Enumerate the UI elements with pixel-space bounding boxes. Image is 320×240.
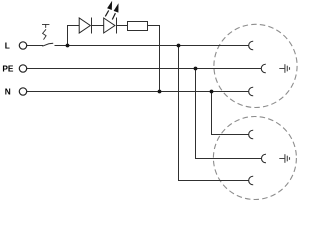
wire N branch to X2 top contact <box>212 92 249 135</box>
wire N bus <box>27 91 249 93</box>
wire L branch to X2 bottom contact <box>179 46 249 181</box>
contact X2 PE (middle) <box>261 154 266 163</box>
wire resistor to N bus <box>148 26 160 92</box>
terminal L <box>19 42 26 49</box>
wire PE branch to X2 middle contact <box>196 69 262 159</box>
contact X1 L <box>249 41 254 50</box>
resistor R1 body <box>128 22 148 31</box>
wire L switch to socket X1 top contact <box>54 45 248 47</box>
node L branch to X2 <box>177 44 181 48</box>
node N branch to X2 <box>210 90 214 94</box>
contact X1 PE <box>261 64 266 73</box>
LED emission arrow 1 <box>105 1 112 17</box>
wire PE bus <box>27 68 262 70</box>
contact X2 N (top) <box>249 130 254 139</box>
svg-text:N: N <box>5 87 11 97</box>
switch S1 blade <box>42 43 53 46</box>
contact X2 L (bottom) <box>249 176 254 185</box>
node PE branch to X2 <box>194 67 198 71</box>
wire diode to LED <box>92 25 104 27</box>
socket outlet X2 dashed circle <box>213 117 296 200</box>
wire L terminal to switch <box>27 45 43 47</box>
node L to LED branch <box>66 44 70 48</box>
svg-text:PE: PE <box>2 64 14 74</box>
LED V2 <box>104 18 115 33</box>
earth symbol X2 <box>279 154 289 163</box>
wire LED to resistor <box>117 25 128 27</box>
svg-text:L: L <box>5 41 10 51</box>
LED emission arrow 2 <box>112 3 118 19</box>
node resistor branch on N <box>158 90 162 94</box>
diode V1 <box>79 18 90 33</box>
contact X1 N <box>249 87 254 96</box>
socket outlet X1 dashed circle <box>214 24 297 107</box>
diode V1 cathode bar <box>91 18 93 34</box>
switch S1 actuator <box>42 24 49 39</box>
earth symbol X1 <box>279 64 289 73</box>
wire LED branch riser <box>68 26 80 46</box>
LED V2 cathode bar <box>116 18 118 34</box>
terminal N <box>19 88 26 95</box>
terminal PE <box>19 65 26 72</box>
